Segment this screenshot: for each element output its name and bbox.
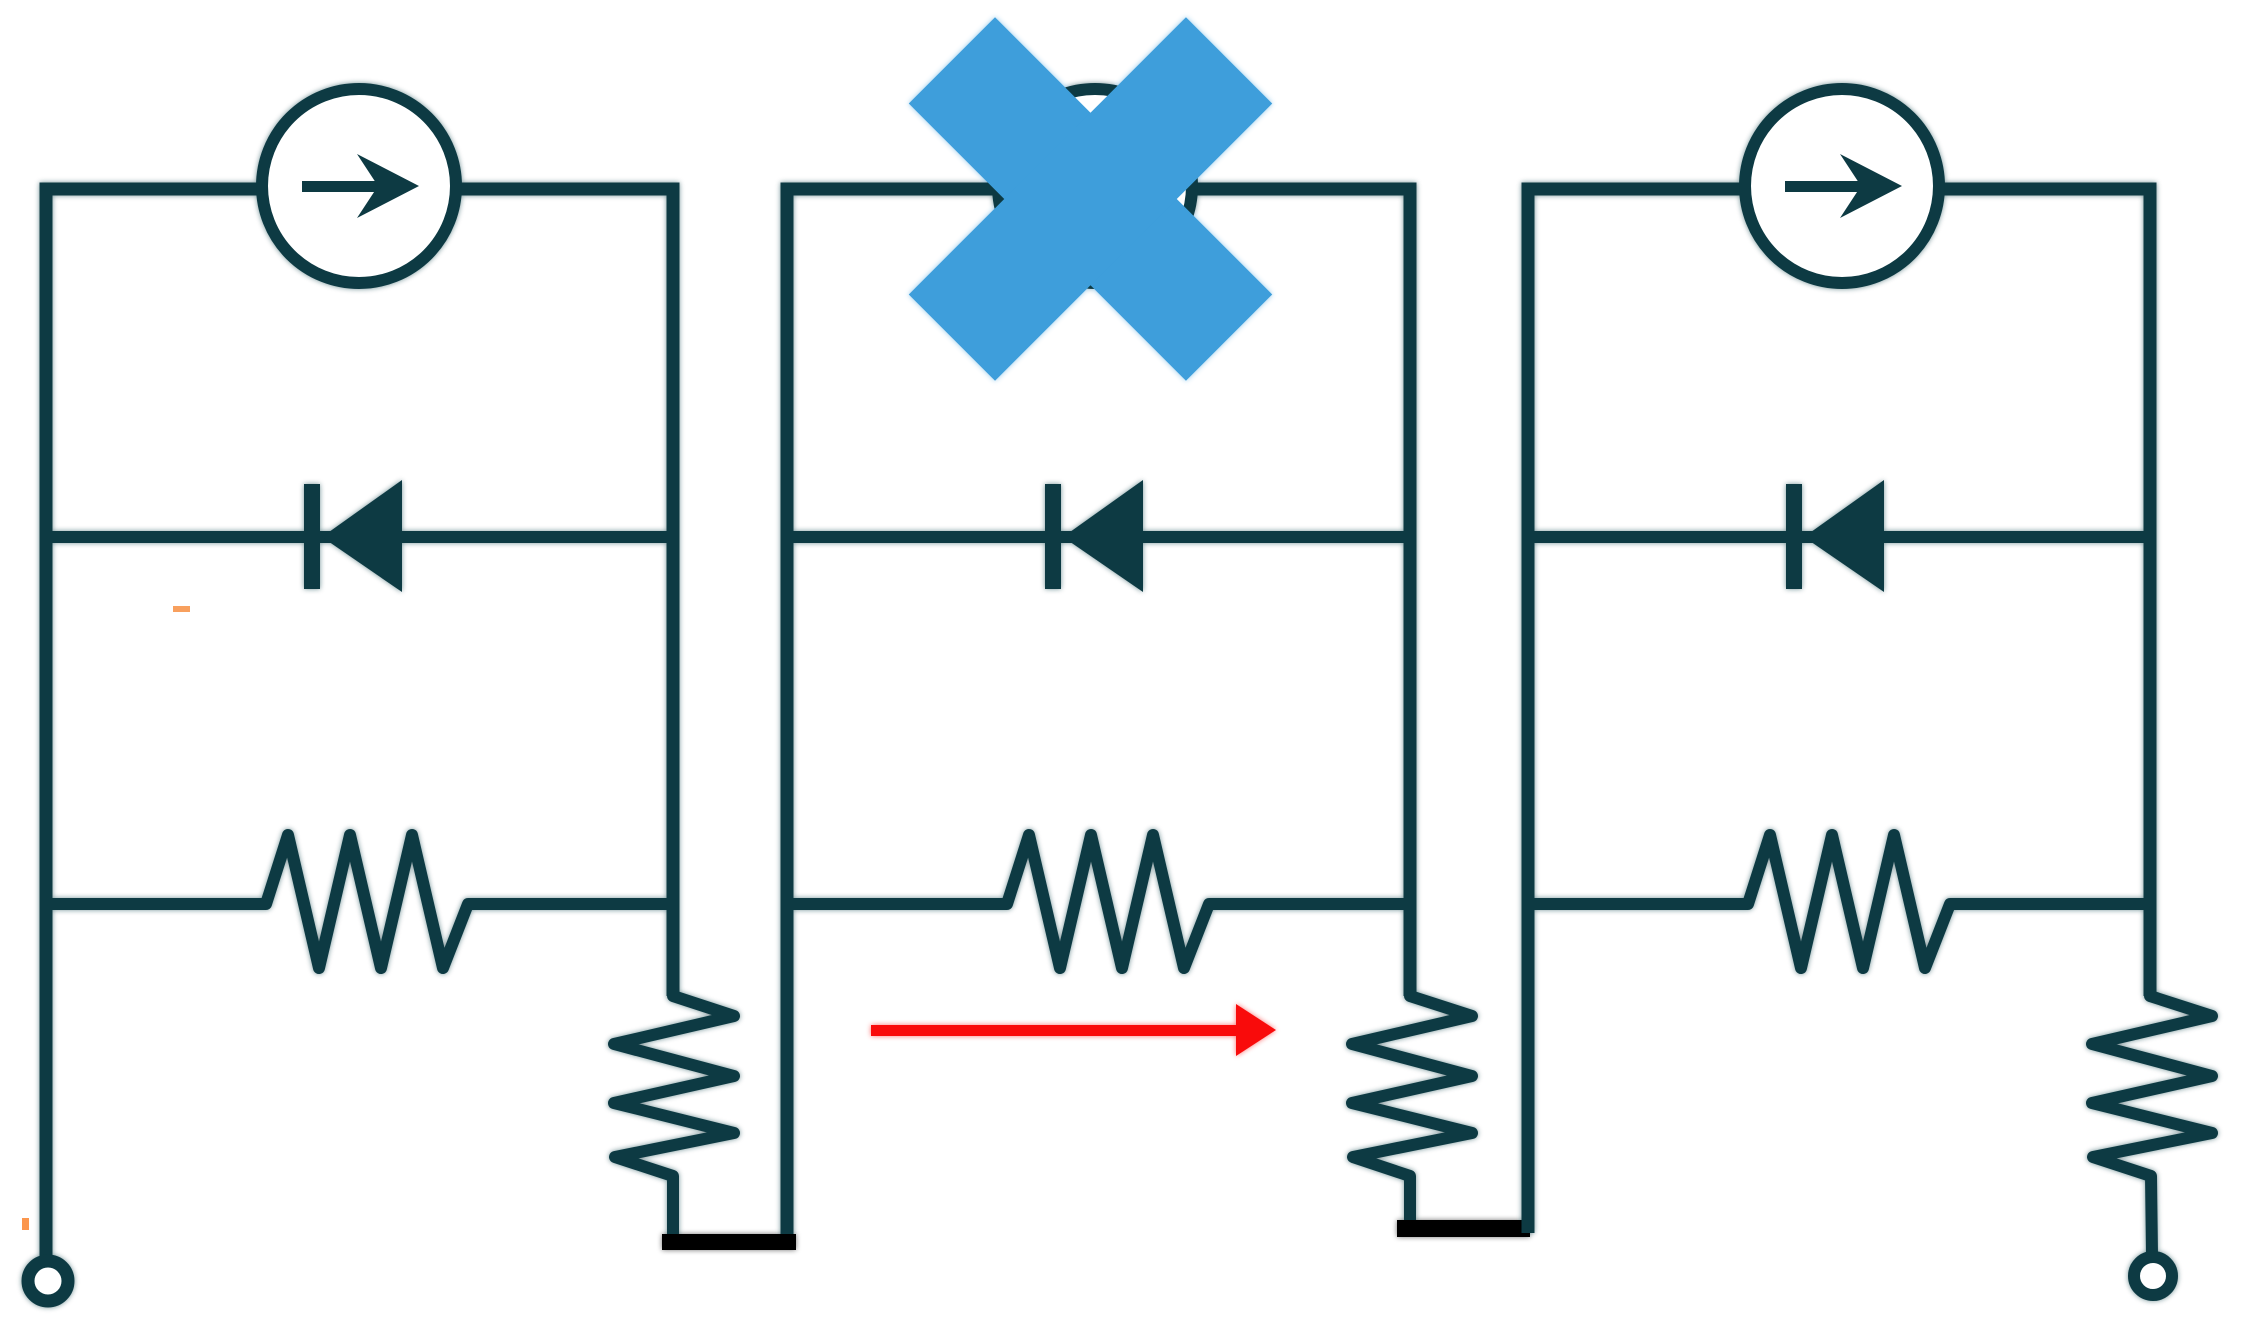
orange artifact dash left bbox=[173, 606, 190, 612]
orange artifact dot bottom-left bbox=[22, 1218, 29, 1230]
